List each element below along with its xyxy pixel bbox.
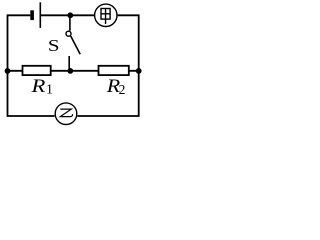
svg-text:S: S	[48, 37, 60, 56]
svg-text:R: R	[30, 77, 45, 97]
svg-text:2: 2	[119, 82, 126, 97]
svg-text:1: 1	[46, 83, 53, 98]
